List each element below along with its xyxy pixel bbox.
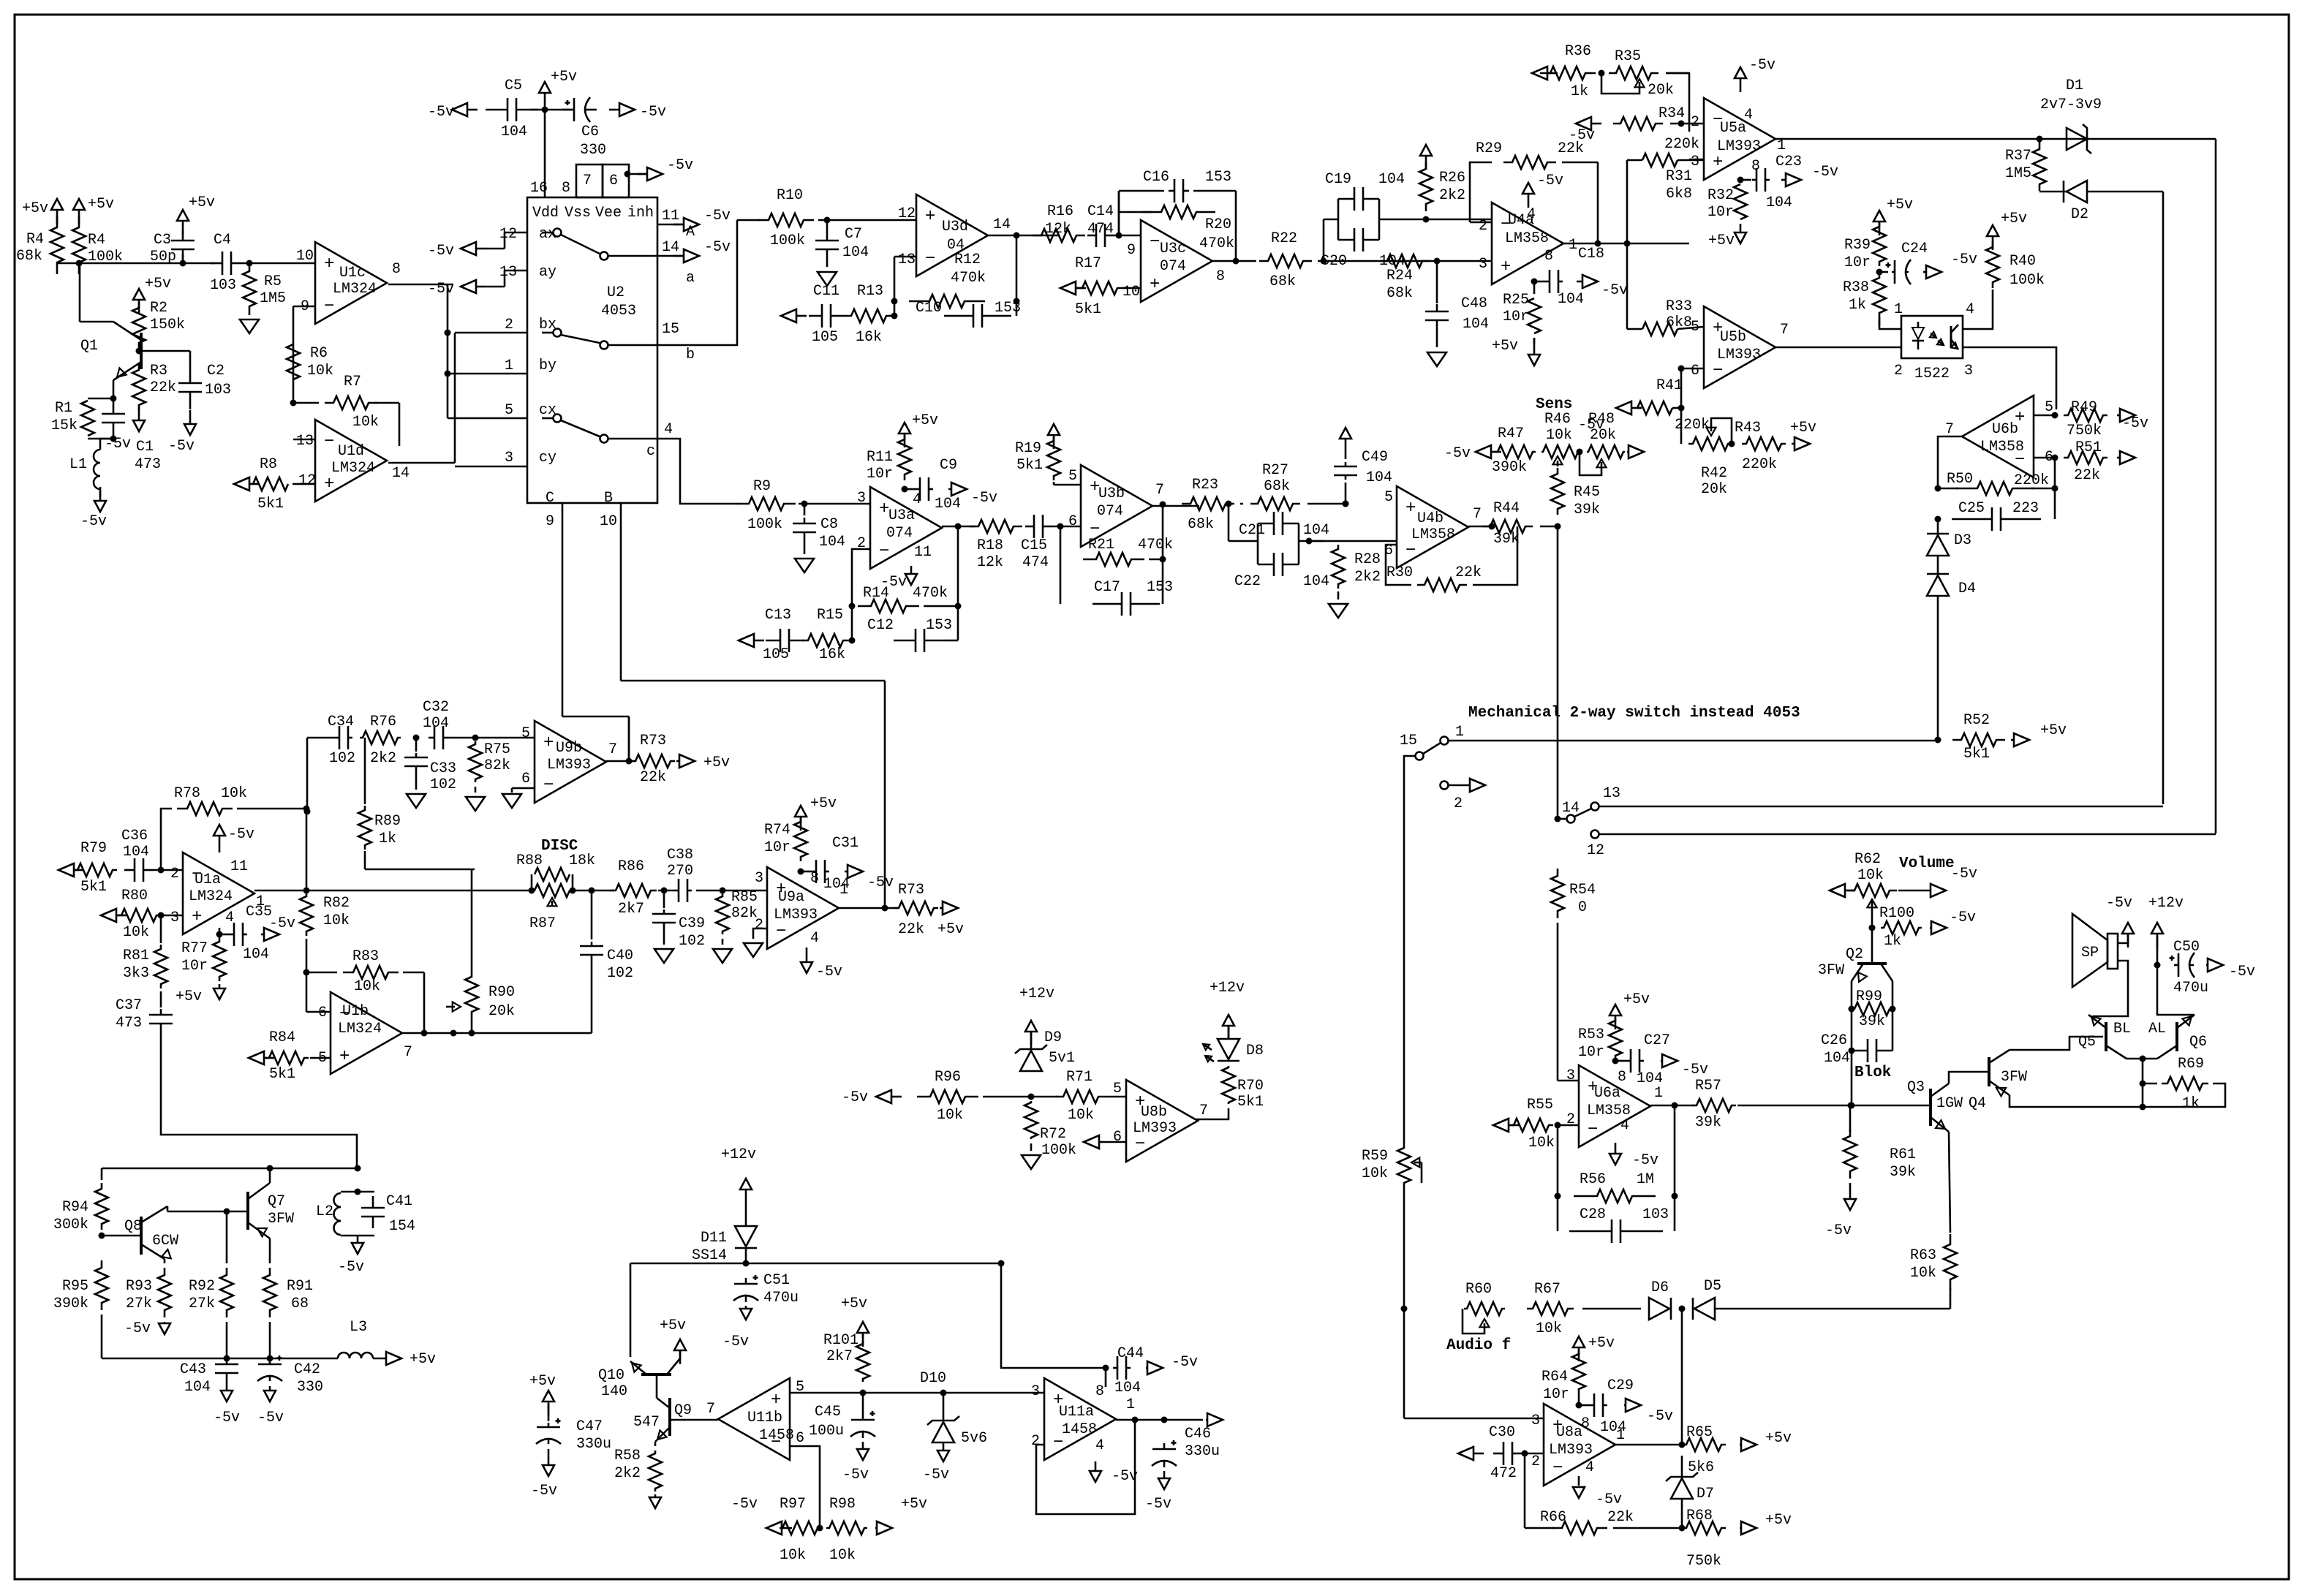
svg-text:-5v: -5v — [1951, 866, 1977, 882]
svg-text:4: 4 — [1620, 1117, 1629, 1134]
svg-text:R21: R21 — [1088, 537, 1114, 553]
svg-text:R37: R37 — [2005, 148, 2031, 164]
svg-text:4: 4 — [1585, 1459, 1594, 1476]
svg-text:C15: C15 — [1021, 537, 1047, 554]
svg-text:D6: D6 — [1651, 1279, 1669, 1296]
svg-text:+5v: +5v — [145, 276, 171, 292]
svg-text:68k: 68k — [1386, 285, 1413, 302]
svg-text:-5v: -5v — [257, 1410, 284, 1426]
svg-text:150k: 150k — [150, 317, 185, 333]
svg-text:R90: R90 — [488, 984, 515, 1001]
svg-text:U1a: U1a — [195, 871, 221, 888]
svg-text:104: 104 — [243, 946, 269, 963]
svg-text:R10: R10 — [777, 187, 803, 204]
svg-text:10k: 10k — [307, 363, 333, 379]
svg-text:R54: R54 — [1569, 882, 1596, 899]
svg-text:074: 074 — [886, 525, 913, 542]
svg-text:6k8: 6k8 — [1666, 314, 1692, 331]
svg-text:+5v: +5v — [660, 1317, 686, 1334]
svg-text:R69: R69 — [2178, 1056, 2204, 1073]
svg-text:R72: R72 — [1040, 1126, 1066, 1143]
svg-text:5v6: 5v6 — [961, 1430, 987, 1447]
svg-text:1: 1 — [1777, 137, 1786, 154]
svg-text:+5v: +5v — [937, 921, 964, 938]
svg-text:-5v: -5v — [428, 243, 454, 260]
svg-text:105: 105 — [812, 329, 838, 346]
svg-text:R25: R25 — [1503, 292, 1529, 309]
svg-text:8: 8 — [1216, 268, 1225, 285]
svg-text:-5v: -5v — [1112, 1468, 1138, 1485]
svg-text:R35: R35 — [1615, 48, 1641, 65]
svg-text:+: + — [324, 474, 334, 494]
svg-text:7: 7 — [1155, 482, 1164, 499]
svg-text:-5v: -5v — [722, 1334, 749, 1350]
svg-text:220k: 220k — [1742, 456, 1777, 473]
svg-text:R91: R91 — [287, 1278, 313, 1295]
svg-text:C39: C39 — [679, 915, 705, 932]
svg-text:R18: R18 — [977, 537, 1003, 554]
svg-text:D4: D4 — [1958, 580, 1976, 597]
svg-text:+5v: +5v — [1492, 338, 1518, 355]
svg-text:+5v: +5v — [551, 69, 577, 86]
svg-text:C18: C18 — [1578, 246, 1604, 262]
svg-text:2: 2 — [1479, 218, 1487, 235]
svg-text:−: − — [543, 776, 554, 795]
svg-text:-5v: -5v — [269, 915, 295, 932]
svg-text:5v1: 5v1 — [1049, 1050, 1075, 1067]
svg-text:R59: R59 — [1362, 1148, 1388, 1165]
svg-text:4: 4 — [1527, 206, 1536, 223]
svg-text:+5v: +5v — [901, 1496, 927, 1513]
svg-text:C2: C2 — [207, 363, 224, 379]
svg-text:+5v: +5v — [410, 1351, 436, 1368]
svg-text:D8: D8 — [1246, 1043, 1264, 1059]
svg-text:1M: 1M — [1637, 1171, 1654, 1188]
svg-text:10: 10 — [296, 248, 314, 265]
svg-text:5: 5 — [1068, 468, 1077, 485]
svg-text:-5v: -5v — [531, 1483, 557, 1499]
svg-text:R65: R65 — [1686, 1424, 1713, 1441]
svg-text:13: 13 — [499, 264, 517, 281]
svg-text:100k: 100k — [770, 232, 805, 249]
svg-text:+5v: +5v — [176, 988, 202, 1005]
svg-text:D11: D11 — [701, 1230, 727, 1247]
svg-text:U8a: U8a — [1556, 1424, 1582, 1441]
svg-text:U6a: U6a — [1594, 1085, 1620, 1102]
svg-text:R48: R48 — [1588, 411, 1615, 428]
svg-text:U1b: U1b — [342, 1003, 369, 1020]
svg-text:10: 10 — [600, 513, 617, 530]
svg-text:22k: 22k — [898, 921, 924, 938]
svg-text:5k1: 5k1 — [269, 1066, 295, 1083]
svg-text:LM393: LM393 — [547, 757, 591, 774]
svg-text:R80: R80 — [121, 888, 148, 904]
svg-text:C37: C37 — [116, 997, 142, 1014]
svg-text:inh: inh — [627, 205, 654, 222]
svg-text:-5v: -5v — [731, 1496, 758, 1513]
svg-text:11: 11 — [230, 858, 248, 875]
svg-text:-5v: -5v — [1951, 251, 1977, 268]
svg-text:R5: R5 — [264, 273, 282, 290]
svg-text:0: 0 — [1578, 899, 1587, 916]
svg-text:C32: C32 — [423, 699, 449, 716]
svg-text:LM393: LM393 — [1549, 1442, 1593, 1459]
svg-text:154: 154 — [389, 1218, 415, 1235]
svg-text:3FW: 3FW — [2001, 1069, 2027, 1086]
svg-text:−: − — [1713, 361, 1723, 381]
svg-text:6k8: 6k8 — [1666, 186, 1692, 203]
svg-text:10r: 10r — [764, 839, 790, 856]
svg-text:-5v: -5v — [168, 438, 195, 455]
svg-text:11: 11 — [914, 544, 932, 561]
svg-text:R87: R87 — [529, 915, 556, 932]
svg-text:1M5: 1M5 — [260, 290, 286, 307]
svg-text:R88: R88 — [516, 852, 543, 869]
svg-text:6CW: 6CW — [152, 1233, 178, 1249]
svg-text:LM358: LM358 — [1505, 230, 1549, 247]
svg-text:R41: R41 — [1656, 377, 1683, 394]
svg-text:5: 5 — [1113, 1081, 1122, 1097]
svg-text:-5v: -5v — [338, 1259, 364, 1276]
svg-text:220k: 220k — [1675, 417, 1710, 434]
svg-text:3: 3 — [857, 490, 866, 507]
svg-text:2k2: 2k2 — [1354, 569, 1381, 586]
svg-text:-5v: -5v — [704, 239, 731, 256]
svg-text:12: 12 — [898, 205, 916, 222]
svg-text:LM324: LM324 — [189, 888, 233, 905]
svg-text:8: 8 — [392, 261, 401, 278]
svg-text:1GW: 1GW — [1936, 1095, 1963, 1112]
svg-text:153: 153 — [1205, 169, 1231, 186]
svg-text:-5v: -5v — [1647, 1408, 1673, 1425]
svg-text:R7: R7 — [344, 374, 361, 390]
svg-text:8: 8 — [1095, 1383, 1104, 1400]
svg-text:7: 7 — [1945, 421, 1954, 438]
svg-text:8: 8 — [810, 870, 819, 887]
svg-text:BL: BL — [2113, 1021, 2131, 1037]
svg-text:R68: R68 — [1686, 1508, 1713, 1524]
svg-text:R70: R70 — [1237, 1078, 1264, 1094]
svg-text:R64: R64 — [1541, 1369, 1568, 1385]
svg-text:750k: 750k — [1686, 1553, 1721, 1570]
svg-text:R26: R26 — [1439, 170, 1465, 186]
svg-text:10r: 10r — [1707, 204, 1734, 221]
svg-text:R92: R92 — [189, 1278, 215, 1295]
svg-text:+5v: +5v — [1790, 420, 1816, 436]
svg-text:22k: 22k — [1607, 1509, 1634, 1526]
svg-text:R97: R97 — [780, 1496, 806, 1513]
svg-text:C35: C35 — [246, 904, 272, 920]
svg-text:6: 6 — [521, 771, 530, 787]
svg-text:470k: 470k — [1199, 235, 1234, 252]
svg-text:+5v: +5v — [22, 200, 48, 217]
svg-text:Q9: Q9 — [674, 1402, 692, 1419]
svg-text:R77: R77 — [181, 940, 208, 957]
svg-text:cy: cy — [539, 450, 556, 466]
svg-text:-5v: -5v — [1596, 1491, 1622, 1508]
svg-text:R28: R28 — [1354, 551, 1381, 568]
svg-text:074: 074 — [1160, 258, 1186, 275]
svg-text:+5v: +5v — [189, 194, 215, 211]
svg-text:R38: R38 — [1843, 279, 1869, 296]
svg-text:-5v: -5v — [1145, 1496, 1171, 1513]
svg-text:104: 104 — [1303, 522, 1329, 539]
svg-text:6: 6 — [1691, 363, 1699, 379]
svg-text:R12: R12 — [954, 251, 981, 268]
svg-text:3: 3 — [505, 450, 513, 466]
svg-text:8: 8 — [1544, 248, 1553, 265]
svg-text:-5v: -5v — [1537, 173, 1563, 189]
svg-text:-5v: -5v — [1682, 1062, 1708, 1078]
svg-text:1: 1 — [1569, 237, 1577, 254]
svg-text:-5v: -5v — [428, 281, 454, 298]
svg-text:104: 104 — [1558, 291, 1584, 308]
svg-text:R94: R94 — [62, 1199, 88, 1216]
svg-text:472: 472 — [1490, 1465, 1517, 1482]
svg-text:C34: C34 — [328, 714, 354, 730]
svg-text:+5v: +5v — [810, 795, 837, 812]
svg-text:474: 474 — [1022, 554, 1049, 571]
svg-text:10r: 10r — [1844, 254, 1871, 271]
svg-text:68k: 68k — [1264, 478, 1290, 495]
svg-text:4: 4 — [1095, 1437, 1104, 1454]
svg-text:103: 103 — [210, 277, 236, 294]
svg-text:C25: C25 — [1958, 500, 1985, 517]
svg-text:104: 104 — [935, 496, 961, 513]
svg-text:-5v: -5v — [428, 104, 454, 121]
svg-text:+5v: +5v — [1765, 1430, 1792, 1447]
svg-text:LM324: LM324 — [331, 460, 375, 477]
svg-text:104: 104 — [823, 876, 850, 893]
svg-text:−: − — [1135, 1135, 1145, 1154]
svg-text:470u: 470u — [763, 1290, 799, 1306]
svg-text:R84: R84 — [269, 1029, 295, 1046]
svg-text:-5v: -5v — [124, 1320, 151, 1337]
svg-text:10: 10 — [1122, 284, 1140, 300]
svg-text:10k: 10k — [1068, 1107, 1094, 1124]
svg-text:547: 547 — [633, 1414, 660, 1431]
svg-text:5k1: 5k1 — [1075, 301, 1101, 318]
svg-text:R46: R46 — [1544, 411, 1571, 428]
svg-text:C42: C42 — [294, 1361, 320, 1378]
svg-text:C38: C38 — [667, 847, 693, 863]
svg-text:U11a: U11a — [1059, 1404, 1094, 1421]
svg-text:10k: 10k — [354, 978, 380, 995]
svg-text:104: 104 — [1463, 316, 1489, 333]
svg-text:13: 13 — [296, 433, 314, 450]
svg-text:330: 330 — [580, 142, 606, 159]
svg-text:2k2: 2k2 — [370, 750, 396, 767]
svg-text:+5v: +5v — [529, 1373, 556, 1390]
svg-text:13: 13 — [898, 251, 916, 268]
svg-text:+: + — [339, 1047, 350, 1067]
svg-text:C21: C21 — [1239, 522, 1265, 539]
svg-text:+12v: +12v — [1210, 980, 1245, 996]
svg-text:C14: C14 — [1087, 203, 1114, 220]
svg-text:27k: 27k — [189, 1296, 215, 1312]
svg-text:103: 103 — [205, 382, 231, 398]
svg-text:ay: ay — [539, 264, 556, 281]
svg-text:-5v: -5v — [2122, 415, 2148, 432]
svg-text:R29: R29 — [1476, 140, 1502, 157]
svg-text:−: − — [925, 249, 935, 269]
svg-text:+5v: +5v — [88, 196, 114, 213]
svg-text:-5v: -5v — [1601, 282, 1628, 299]
svg-text:C6: C6 — [581, 124, 599, 140]
svg-text:1: 1 — [1455, 724, 1464, 741]
svg-text:R45: R45 — [1574, 484, 1600, 501]
svg-text:by: by — [539, 358, 556, 374]
svg-text:104: 104 — [1824, 1050, 1850, 1067]
svg-text:104: 104 — [1114, 1380, 1141, 1396]
svg-text:-5v: -5v — [667, 157, 693, 174]
svg-text:100k: 100k — [747, 516, 782, 533]
svg-text:+: + — [1405, 499, 1416, 518]
svg-text:−: − — [776, 922, 786, 942]
svg-text:R95: R95 — [62, 1278, 88, 1295]
svg-text:+12v: +12v — [2148, 895, 2184, 912]
svg-text:R57: R57 — [1695, 1078, 1721, 1094]
svg-text:LM358: LM358 — [1411, 526, 1455, 543]
svg-text:140: 140 — [601, 1383, 627, 1400]
svg-text:2k2: 2k2 — [1439, 187, 1465, 204]
svg-text:Q4: Q4 — [1969, 1095, 1986, 1112]
svg-text:C45: C45 — [815, 1404, 841, 1421]
svg-text:2: 2 — [1454, 795, 1463, 812]
svg-text:4: 4 — [664, 421, 673, 438]
svg-text:-5v: -5v — [867, 874, 894, 891]
svg-text:2k7: 2k7 — [826, 1348, 853, 1365]
svg-text:4: 4 — [1744, 107, 1753, 124]
svg-text:R49: R49 — [2071, 399, 2097, 416]
svg-text:R2: R2 — [150, 300, 167, 317]
svg-text:+: + — [1501, 257, 1511, 277]
svg-text:102: 102 — [430, 776, 456, 793]
svg-text:D2: D2 — [2071, 206, 2088, 223]
svg-text:074: 074 — [1097, 503, 1123, 520]
svg-text:2k2: 2k2 — [614, 1465, 641, 1482]
svg-text:-5v: -5v — [816, 964, 842, 980]
svg-text:+5v: +5v — [1765, 1512, 1792, 1529]
svg-text:3: 3 — [1531, 1412, 1540, 1429]
svg-text:R20: R20 — [1205, 216, 1231, 233]
svg-text:3: 3 — [170, 909, 179, 926]
svg-text:Vss: Vss — [565, 205, 591, 222]
svg-text:C1: C1 — [136, 439, 154, 455]
svg-text:C41: C41 — [386, 1193, 412, 1210]
svg-text:10k: 10k — [221, 785, 247, 802]
svg-text:R3: R3 — [150, 363, 167, 379]
svg-text:R55: R55 — [1527, 1097, 1553, 1113]
svg-text:+: + — [1713, 153, 1723, 173]
svg-text:R60: R60 — [1465, 1281, 1492, 1298]
svg-text:LM393: LM393 — [1717, 347, 1761, 363]
svg-text:L1: L1 — [69, 456, 87, 473]
svg-text:C30: C30 — [1489, 1424, 1515, 1441]
svg-text:-5v: -5v — [214, 1410, 240, 1426]
svg-text:104: 104 — [501, 124, 527, 140]
svg-text:13: 13 — [1603, 785, 1620, 802]
svg-text:R39: R39 — [1844, 237, 1871, 254]
svg-text:6: 6 — [796, 1430, 804, 1447]
svg-text:C28: C28 — [1580, 1206, 1606, 1223]
svg-text:U9b: U9b — [556, 740, 582, 757]
svg-text:104: 104 — [184, 1379, 211, 1396]
svg-text:10k: 10k — [352, 414, 379, 431]
svg-text:39k: 39k — [1859, 1013, 1885, 1030]
svg-text:10k: 10k — [937, 1107, 963, 1124]
svg-text:−: − — [1588, 1120, 1598, 1140]
svg-text:39k: 39k — [1695, 1114, 1721, 1131]
svg-text:153: 153 — [995, 300, 1021, 317]
svg-text:R61: R61 — [1890, 1146, 1916, 1163]
svg-text:104: 104 — [1303, 573, 1329, 590]
svg-text:20k: 20k — [1701, 481, 1727, 498]
svg-text:103: 103 — [1642, 1206, 1669, 1223]
svg-text:100k: 100k — [2009, 272, 2045, 289]
svg-text:1M5: 1M5 — [2005, 165, 2031, 182]
svg-text:C20: C20 — [1321, 253, 1347, 270]
svg-text:68k: 68k — [1269, 273, 1296, 290]
svg-text:3k3: 3k3 — [123, 965, 149, 982]
svg-text:6: 6 — [609, 173, 618, 189]
svg-text:68: 68 — [291, 1296, 309, 1312]
svg-text:R32: R32 — [1707, 187, 1734, 204]
svg-text:R13: R13 — [857, 283, 883, 300]
svg-text:R27: R27 — [1262, 462, 1288, 479]
svg-text:-5v: -5v — [1812, 164, 1838, 181]
svg-text:18k: 18k — [569, 852, 595, 869]
svg-text:R1: R1 — [55, 400, 72, 417]
svg-text:LM324: LM324 — [333, 281, 377, 298]
svg-text:15: 15 — [1400, 733, 1417, 749]
svg-text:R82: R82 — [323, 895, 350, 912]
svg-text:R73: R73 — [640, 733, 666, 749]
svg-text:b: b — [686, 347, 695, 363]
svg-text:A: A — [686, 224, 695, 241]
svg-text:12k: 12k — [977, 554, 1003, 571]
svg-text:5: 5 — [1384, 489, 1393, 506]
svg-text:3FW: 3FW — [268, 1211, 294, 1228]
svg-text:R4: R4 — [26, 231, 44, 248]
svg-text:1: 1 — [1894, 301, 1903, 318]
svg-text:D10: D10 — [920, 1370, 946, 1387]
svg-text:R89: R89 — [374, 813, 401, 830]
svg-text:LM393: LM393 — [774, 907, 818, 923]
svg-text:-5v: -5v — [971, 490, 997, 507]
svg-text:3FW: 3FW — [1818, 962, 1844, 979]
svg-text:1: 1 — [505, 358, 513, 374]
svg-text:9: 9 — [1127, 242, 1136, 259]
svg-text:+5v: +5v — [841, 1296, 867, 1312]
svg-text:C10: C10 — [916, 300, 942, 317]
svg-text:223: 223 — [2012, 500, 2039, 517]
svg-text:2: 2 — [505, 317, 513, 333]
svg-text:R22: R22 — [1271, 230, 1297, 247]
svg-text:−: − — [1552, 1459, 1563, 1478]
svg-text:R53: R53 — [1578, 1026, 1604, 1043]
svg-text:14: 14 — [662, 239, 679, 256]
svg-text:-5v: -5v — [2229, 964, 2255, 980]
svg-text:R73: R73 — [898, 882, 924, 899]
svg-text:473: 473 — [135, 456, 161, 473]
svg-text:10r: 10r — [1578, 1044, 1604, 1061]
svg-text:U2: U2 — [607, 284, 624, 301]
svg-text:R17: R17 — [1075, 255, 1101, 272]
svg-text:Vee: Vee — [595, 205, 622, 222]
svg-text:-5v: -5v — [1749, 57, 1775, 74]
svg-text:LM393: LM393 — [1133, 1120, 1177, 1137]
